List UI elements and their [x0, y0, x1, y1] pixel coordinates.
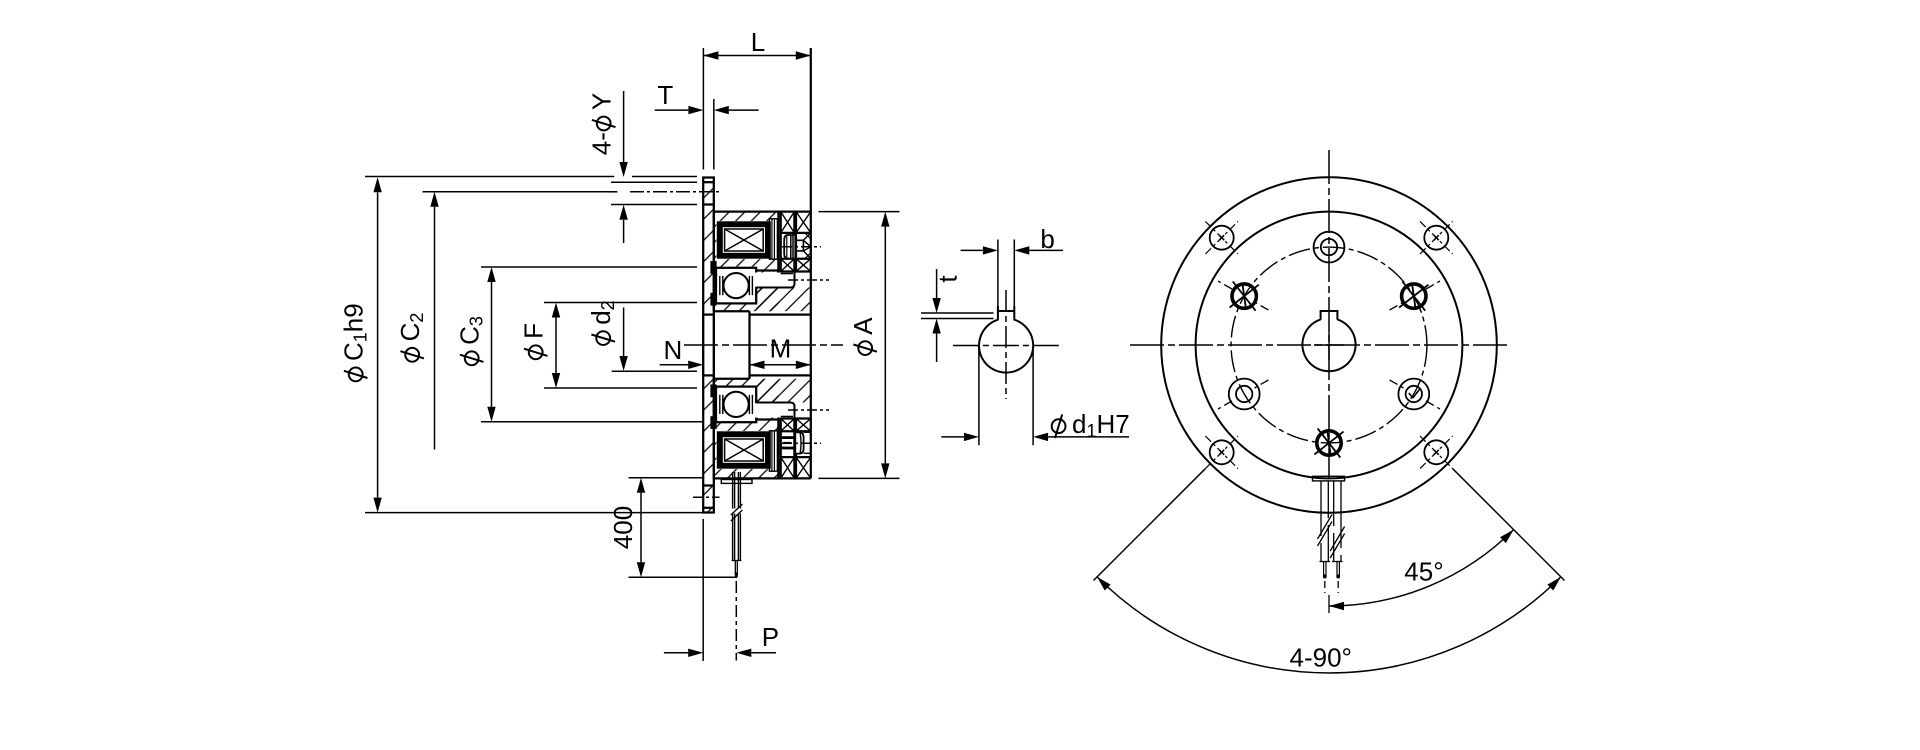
rotor hub hatch lower	[756, 379, 811, 403]
rotor face lines	[778, 212, 780, 479]
rotor band boundaries upper	[781, 233, 811, 272]
plate hole lines top	[703, 182, 714, 204]
bolt hole 60	[1390, 281, 1440, 311]
svg-text:M: M	[770, 333, 792, 363]
rotor cross cells upper	[781, 212, 811, 272]
screw lower axis	[782, 442, 821, 444]
front view body circle	[1196, 212, 1463, 479]
dimension P	[664, 519, 779, 661]
svg-text:T: T	[657, 80, 673, 110]
front view centre hole	[1302, 311, 1355, 371]
wire centreline left	[735, 581, 737, 661]
dimension b	[961, 224, 1063, 255]
dimension phiF	[519, 303, 698, 389]
flange hole top-left	[1205, 221, 1238, 254]
lamination stack lower	[769, 431, 777, 471]
svg-text:C: C	[395, 323, 425, 342]
dimension 45 arc	[1329, 530, 1514, 611]
plate hole centreline bottom	[693, 496, 720, 498]
screw lower	[781, 432, 811, 453]
dimension phid1 H7	[941, 346, 1129, 445]
svg-text:F: F	[519, 323, 549, 339]
wire terminal bar left	[721, 480, 752, 484]
dimension T	[655, 80, 759, 170]
svg-text:d: d	[586, 310, 616, 324]
plate hole lines bottom	[703, 486, 714, 508]
svg-text:A: A	[848, 317, 878, 335]
bolt hole 240	[1218, 379, 1268, 410]
svg-text:h9: h9	[339, 303, 369, 332]
bearing seals upper	[710, 261, 716, 306]
bolt hole top	[1314, 232, 1345, 263]
dimension L	[703, 27, 810, 170]
screw upper	[784, 233, 811, 259]
radial extension line left	[1094, 469, 1206, 581]
svg-text:1: 1	[1087, 421, 1097, 441]
front view centrelines	[1130, 150, 1508, 478]
shaft bore circle	[979, 320, 1033, 373]
svg-text:45: 45	[1404, 557, 1433, 587]
main centreline left view	[684, 344, 843, 346]
svg-text:H7: H7	[1097, 409, 1130, 439]
svg-text:4-: 4-	[587, 132, 617, 155]
svg-text:Y: Y	[587, 93, 617, 110]
rotor band boundaries lower	[781, 419, 811, 458]
dimension 400	[608, 478, 737, 578]
lamination stack upper	[769, 219, 777, 259]
stator yoke hatch lower	[714, 379, 779, 479]
dimension phiC3	[455, 267, 704, 422]
svg-text:N: N	[664, 335, 683, 365]
armature plate	[703, 178, 714, 513]
rotor centreline marks	[788, 280, 829, 410]
svg-text:C: C	[339, 342, 369, 361]
flange hole bottom-left	[1205, 436, 1238, 469]
stator yoke hatch upper	[714, 212, 779, 312]
rotor hub hatch upper	[756, 288, 811, 312]
flange hole top-right	[1420, 221, 1453, 254]
plate hole centreline top	[609, 191, 719, 193]
dimension 4-phiY	[587, 91, 628, 243]
dimension N	[660, 335, 704, 369]
front view bolt circle	[1231, 247, 1427, 443]
rotor spring pocket lower	[755, 403, 795, 420]
rotor spring pocket upper	[755, 271, 795, 288]
svg-text:2: 2	[598, 300, 618, 310]
radial extension line right	[1453, 469, 1565, 581]
bearing upper	[716, 268, 756, 304]
keyway	[998, 240, 1014, 321]
dimension 4-90 arc	[1097, 577, 1561, 673]
bearing seals lower	[710, 384, 716, 429]
dimension t	[921, 269, 994, 362]
bolt hole bottom	[1314, 428, 1343, 457]
rotor divider lines	[794, 212, 796, 479]
svg-text:P: P	[762, 622, 779, 652]
hub step line	[748, 311, 750, 379]
dimension phiC2	[395, 192, 614, 450]
stator body outline	[714, 48, 811, 478]
shaft bore centrelines	[953, 290, 1059, 399]
svg-text:°: °	[1342, 642, 1352, 672]
bore lines lower	[703, 375, 811, 378]
bore lines upper	[703, 311, 811, 314]
bolt hole 120	[1390, 379, 1440, 410]
rotor cross cells lower	[781, 419, 811, 479]
coil lower	[717, 431, 771, 468]
svg-text:d: d	[1072, 409, 1086, 439]
bearing lower	[716, 387, 756, 423]
dimension phiC1 h9	[339, 177, 703, 512]
svg-text:3: 3	[467, 316, 487, 326]
svg-text:L: L	[751, 27, 765, 57]
front view outer circle	[1161, 177, 1497, 513]
svg-text:2: 2	[407, 313, 427, 323]
svg-text:4-90: 4-90	[1290, 642, 1342, 672]
dimension M	[750, 333, 811, 369]
svg-text:°: °	[1433, 557, 1443, 587]
wires left	[731, 472, 743, 577]
yoke cutouts	[716, 218, 778, 471]
svg-text:b: b	[1040, 224, 1054, 254]
extension lines plate top	[365, 177, 697, 205]
wire terminal bar front	[1313, 476, 1345, 481]
wires front	[1318, 481, 1345, 578]
screw upper axis	[782, 246, 821, 248]
coil upper	[717, 221, 771, 258]
flange hole bottom-right	[1420, 436, 1453, 469]
dimension phiA	[819, 212, 900, 479]
wire centrelines front	[1325, 581, 1338, 613]
svg-text:C: C	[455, 326, 485, 345]
bolt hole 300	[1218, 281, 1268, 311]
dimension phid2	[586, 300, 697, 371]
svg-text:1: 1	[351, 332, 371, 342]
svg-text:400: 400	[608, 506, 638, 549]
svg-text:t: t	[933, 275, 963, 283]
